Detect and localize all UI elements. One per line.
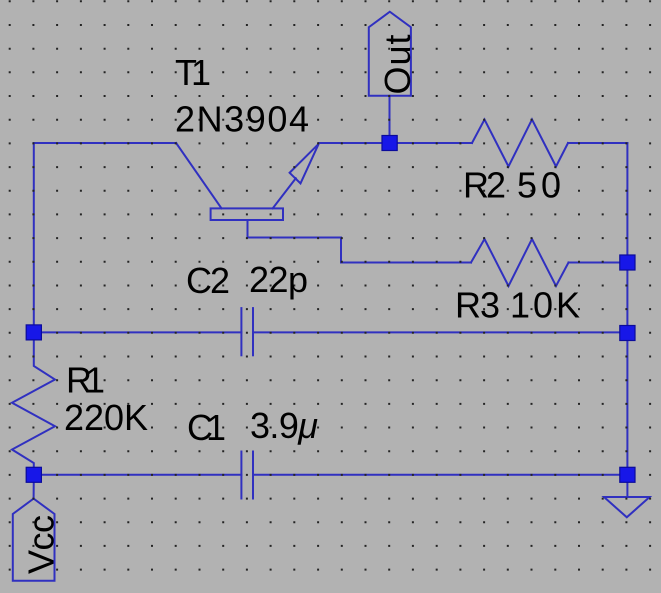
resistor R2 zigzag: [472, 120, 568, 167]
wire emitter to out junction: [319, 142, 390, 144]
transistor T1 collector line: [176, 143, 221, 208]
port Vcc pentagon: [13, 499, 55, 581]
junction ground node: [620, 467, 635, 482]
wire R2 to right rail: [568, 142, 627, 144]
wire collector net: top horizontal: [34, 142, 176, 144]
svg-text:10K: 10K: [510, 285, 580, 326]
transistor T1 emitter arrow: [290, 144, 319, 184]
junction C1 left node: [26, 467, 41, 482]
wire vcc stub: [33, 475, 35, 499]
svg-text:R1: R1: [66, 360, 105, 401]
svg-text:C2: C2: [186, 260, 230, 301]
wire out port stub: [389, 96, 391, 143]
wire out junction to R2: [390, 142, 472, 144]
capacitor C1 left plate: [240, 452, 242, 499]
svg-text:R3: R3: [455, 285, 500, 326]
svg-text:T1: T1: [175, 52, 211, 93]
resistor R3 zigzag: [471, 239, 569, 286]
svg-text:220K: 220K: [64, 397, 148, 438]
junction C2 left node: [26, 325, 41, 340]
wire C1 net left: [34, 474, 242, 476]
junction out node: [382, 136, 397, 151]
resistor R1 zigzag: [12, 340, 55, 475]
junction R3 right node: [620, 255, 635, 270]
svg-text:R2: R2: [463, 165, 506, 206]
junction C2 right node: [620, 326, 635, 341]
port Out pentagon: [369, 12, 411, 96]
wire collector net: left vertical: [33, 143, 35, 332]
svg-text:C1: C1: [187, 407, 226, 448]
svg-text:3.9μ: 3.9μ: [250, 405, 318, 446]
capacitor C1 right plate: [252, 452, 254, 499]
transistor T1 emitter line: [273, 178, 296, 208]
ground symbol: [626, 475, 628, 497]
svg-text:Vcc: Vcc: [21, 515, 62, 574]
wire C2 net right: [253, 331, 627, 333]
svg-text:22p: 22p: [249, 259, 308, 300]
wire right rail vertical: [626, 143, 628, 475]
transistor T1 base bar: [211, 208, 283, 220]
wire C1 net right: [253, 474, 627, 476]
capacitor C2 left plate: [240, 308, 242, 355]
wire base net: [248, 220, 472, 263]
svg-text:Out: Out: [377, 35, 418, 95]
capacitor C2 right plate: [252, 308, 254, 355]
wire C2 net left: [34, 331, 242, 333]
wire R3 to right rail: [569, 262, 628, 264]
